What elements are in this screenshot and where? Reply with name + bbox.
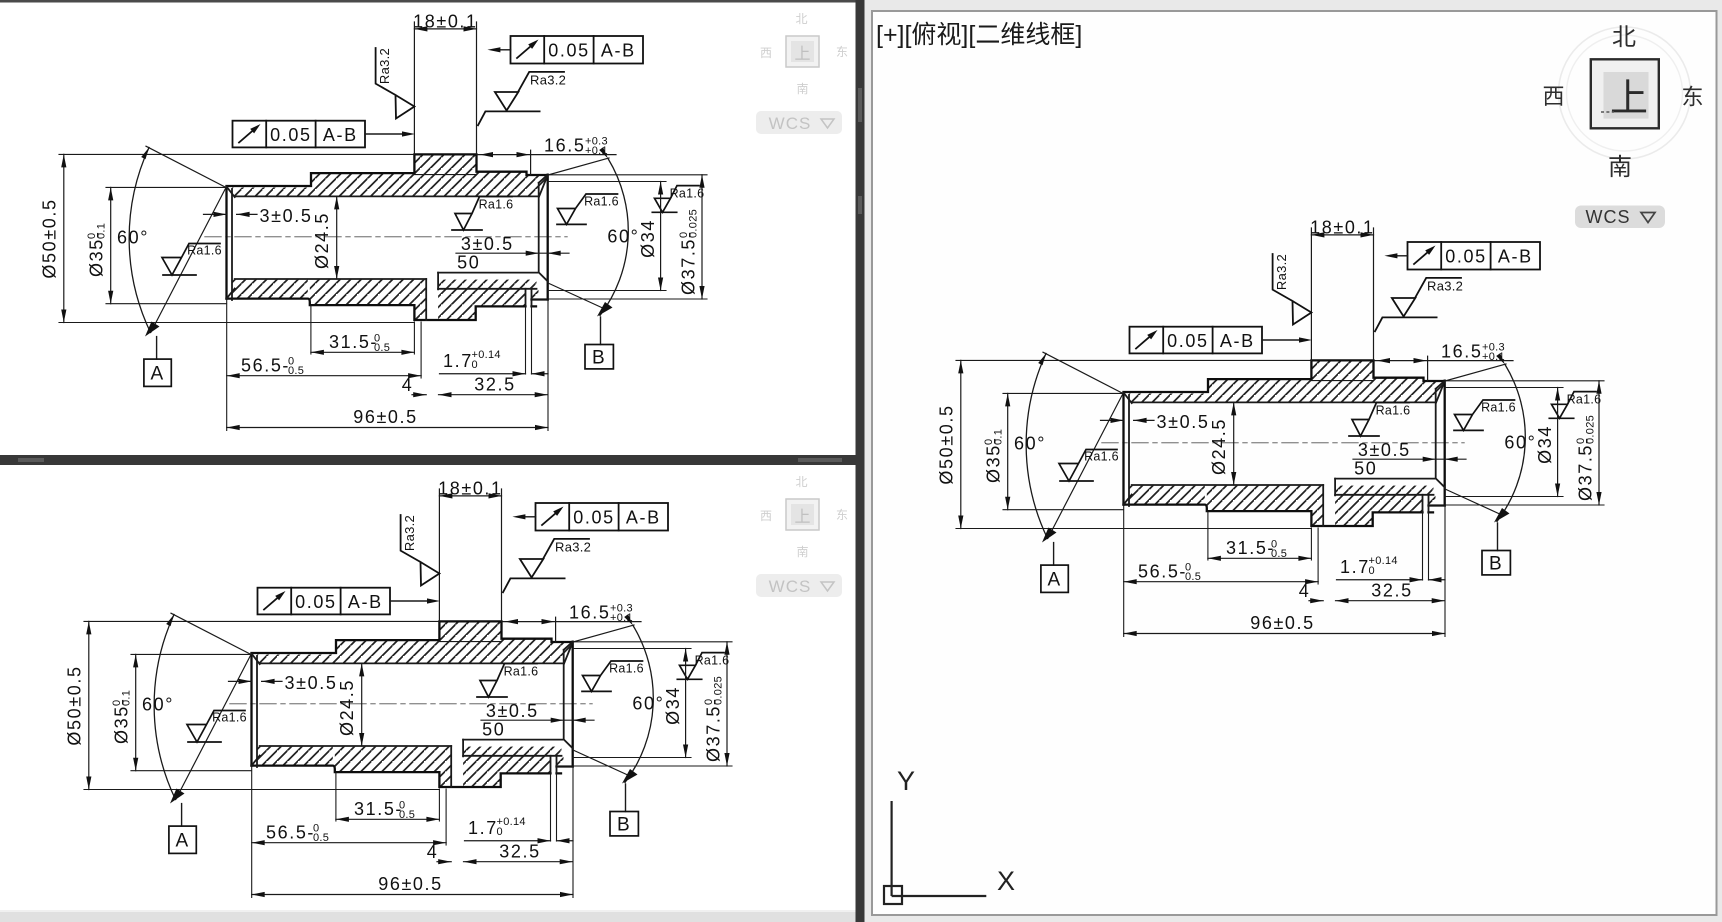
ViewCube compass (active viewport) [1542,24,1703,181]
top toolbar edge [0,0,1722,3]
svg-text:北: 北 [795,475,807,489]
svg-text:南: 南 [1608,154,1632,181]
drawing instance: bottom-left viewport [65,478,733,897]
ghost viewcube (inactive viewport) [760,475,848,559]
svg-text:西: 西 [760,509,772,523]
svg-text:上: 上 [1610,78,1648,120]
svg-text:Y: Y [897,766,915,796]
svg-text:北: 北 [795,12,807,26]
svg-text:东: 东 [836,45,848,59]
svg-text:北: 北 [1612,24,1636,51]
WCS control (active viewport) [1575,206,1665,229]
svg-text:WCS: WCS [1586,207,1631,227]
viewport divider vertical [856,0,865,922]
ghost WCS control [756,574,842,597]
viewport divider horizontal [0,455,864,465]
ghost viewcube (inactive viewport) [760,12,848,96]
svg-text:X: X [997,866,1015,896]
svg-text:西: 西 [760,46,772,60]
svg-text:东: 东 [1681,85,1703,110]
drawing instance: top-left viewport [40,11,708,430]
svg-text:WCS: WCS [769,114,812,133]
svg-text:WCS: WCS [769,577,812,596]
ghost WCS control [756,111,842,134]
bottom-left viewport bottom border [0,912,856,922]
svg-text:南: 南 [796,81,808,96]
svg-text:南: 南 [796,544,808,559]
drawing instance: right viewport [937,217,1605,636]
right viewport outer background [865,0,1722,922]
UCS icon [884,801,986,904]
svg-text:[+][俯视][二维线框]: [+][俯视][二维线框] [876,21,1082,49]
svg-text:上: 上 [794,45,810,63]
svg-text:西: 西 [1542,84,1564,109]
svg-text:东: 东 [836,508,848,522]
right viewport inner area [872,11,1717,915]
svg-text:上: 上 [794,508,810,526]
